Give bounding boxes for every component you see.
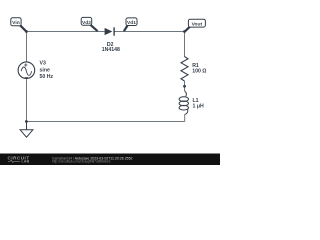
wire left rail upper (26, 32, 28, 62)
svg-text:1 μH: 1 μH (193, 103, 205, 109)
svg-text:100 Ω: 100 Ω (192, 69, 206, 75)
svg-text:V3: V3 (40, 60, 46, 66)
svg-text:1N4148: 1N4148 (102, 47, 120, 53)
junction dot top-left (25, 30, 28, 33)
svg-text:sine: sine (40, 67, 50, 73)
wire inductor bottom to rail (184, 115, 186, 122)
inductor L1 (179, 91, 188, 115)
footer bar (0, 154, 220, 166)
label R1 100 Ohm (192, 63, 206, 74)
wire right rail upper (184, 32, 186, 57)
svg-text:Vd2: Vd2 (82, 20, 91, 26)
ground (20, 122, 33, 138)
node flag Vd1 (124, 18, 137, 31)
label D2 1N4148 (102, 42, 120, 53)
voltage source V3 (18, 62, 35, 79)
wire between resistor and inductor (184, 81, 186, 91)
node flag Vin (11, 18, 26, 32)
label V3 sine 50 Hz (40, 60, 54, 80)
node flag Vout (185, 19, 206, 31)
wire top rail cathode side (115, 31, 185, 33)
junction dot bottom-left (25, 120, 28, 123)
svg-text:LAB: LAB (22, 160, 30, 164)
diode D2 (105, 27, 115, 35)
svg-text:http://circuitlab.com/c6uyq9h6: http://circuitlab.com/c6uyq9h67o899wk2e (52, 160, 111, 164)
svg-text:Vd1: Vd1 (127, 20, 136, 26)
wire left rail lower (26, 79, 28, 122)
svg-text:Vin: Vin (12, 20, 20, 26)
svg-text:50 Hz: 50 Hz (40, 74, 54, 80)
wire bottom rail (27, 121, 185, 123)
junction dot R1-L1 (183, 85, 186, 88)
logo CIRCUIT LAB (8, 155, 30, 163)
resistor R1 (181, 57, 188, 82)
junction dot top-right (183, 30, 186, 33)
svg-text:Vout: Vout (192, 22, 203, 28)
wire top rail anode side (27, 31, 105, 33)
node flag Vd2 (81, 17, 97, 31)
label L1 1 uH (193, 98, 205, 109)
